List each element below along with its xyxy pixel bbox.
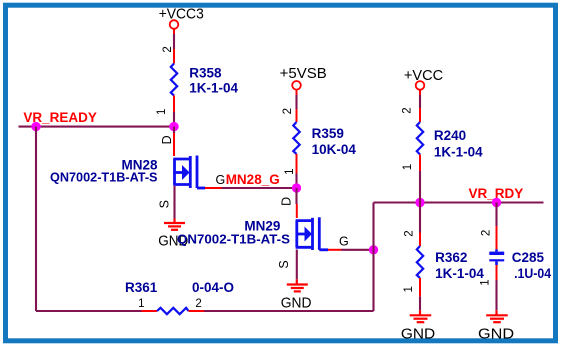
ground symbol below C285 — [486, 310, 508, 322]
wire +VCC to R240 — [419, 95, 421, 108]
svg-text:.1U-04: .1U-04 — [514, 266, 551, 281]
MN28 drain pin lead — [173, 133, 175, 156]
power symbol +VCC — [416, 81, 425, 95]
svg-text:G: G — [216, 173, 226, 187]
R362 pin 2 lead — [419, 233, 421, 247]
svg-text:1: 1 — [402, 164, 414, 170]
junction dot node MN28_G — [292, 183, 301, 192]
svg-text:GND: GND — [401, 326, 435, 342]
svg-text:2: 2 — [195, 298, 201, 310]
wire R358 to node — [173, 112, 175, 127]
svg-text:S: S — [158, 200, 172, 208]
svg-text:1K-1-04: 1K-1-04 — [189, 81, 238, 96]
transistor MN29 QN7002-T1B-AT-S — [296, 217, 328, 250]
R362 pin 1 lead — [419, 278, 421, 297]
C285 pin 1 lead — [496, 265, 498, 280]
svg-text:QN7002-T1B-AT-S: QN7002-T1B-AT-S — [50, 170, 158, 185]
R359 pin 2 lead — [296, 109, 298, 122]
svg-text:R362: R362 — [435, 250, 467, 265]
resistor R359 — [293, 122, 299, 154]
wire +VCC3 to R358 — [173, 34, 175, 49]
svg-text:R359: R359 — [312, 126, 344, 141]
ground symbol below MN29 — [287, 279, 308, 291]
R358 pin 1 lead — [173, 96, 175, 113]
svg-text:R240: R240 — [434, 128, 466, 143]
junction dot MN29 gate — [369, 245, 378, 254]
svg-text:2: 2 — [404, 230, 416, 236]
MN28 source lead — [173, 186, 175, 219]
R240 pin 2 lead — [419, 108, 421, 122]
wire C285 to ground — [495, 280, 497, 310]
wire VR_RDY to R362 — [419, 203, 421, 233]
wire bottom left — [36, 310, 142, 312]
transistor MN28 QN7002-T1B-AT-S — [173, 156, 205, 189]
svg-text:1K-1-04: 1K-1-04 — [435, 266, 484, 281]
wire node to MN28 drain — [173, 127, 175, 133]
capacitor C285 — [489, 249, 504, 265]
wire +5VSB to R359 — [295, 95, 297, 109]
R359 pin 1 lead — [296, 154, 298, 174]
power symbol +VCC3 — [170, 20, 179, 34]
svg-text:R361: R361 — [125, 280, 158, 295]
svg-text:0-04-O: 0-04-O — [192, 280, 234, 295]
wire MN28 gate to node — [222, 187, 297, 189]
svg-text:10K-04: 10K-04 — [312, 142, 357, 157]
wire VR_READY horizontal — [19, 126, 175, 128]
svg-text:D: D — [279, 197, 293, 206]
svg-text:1: 1 — [138, 298, 144, 310]
wire VR_RDY to C285 — [495, 203, 497, 227]
C285 pin 2 lead — [496, 226, 498, 249]
R240 pin 1 lead — [419, 155, 421, 172]
svg-text:QN7002-T1B-AT-S: QN7002-T1B-AT-S — [177, 232, 290, 247]
MN28 gate pin lead — [205, 187, 222, 189]
svg-text:1: 1 — [480, 279, 492, 285]
resistor R362 — [417, 246, 423, 278]
junction dot at C285 top — [492, 198, 501, 207]
svg-text:2: 2 — [162, 46, 174, 52]
svg-text:1: 1 — [156, 109, 168, 115]
svg-text:2: 2 — [402, 107, 414, 113]
svg-text:GND: GND — [281, 296, 312, 312]
MN29 source lead — [296, 250, 298, 280]
svg-text:1: 1 — [284, 168, 296, 174]
junction dot at R358 bottom — [169, 122, 178, 131]
R358 pin 2 lead — [173, 49, 175, 64]
junction dot at R240 bottom — [415, 198, 424, 207]
svg-text:GND: GND — [478, 326, 514, 342]
junction dot on VR_READY — [31, 122, 40, 131]
wire bottom right — [204, 310, 374, 312]
ground symbol below R362 — [410, 310, 432, 322]
R361 pin 1 lead — [142, 310, 158, 312]
wire R362 to ground — [419, 297, 421, 311]
wire MN29 gate to vertical — [341, 249, 374, 251]
wire VR_RDY horizontal — [374, 201, 544, 203]
svg-text:+5VSB: +5VSB — [280, 66, 327, 82]
svg-text:MN28_G: MN28_G — [226, 172, 280, 187]
svg-text:2: 2 — [282, 108, 294, 114]
MN29 gate pin lead — [328, 249, 341, 251]
svg-text:1: 1 — [403, 286, 415, 292]
svg-text:R358: R358 — [189, 66, 222, 81]
resistor R358 — [171, 64, 177, 96]
svg-text:D: D — [160, 135, 174, 144]
svg-text:1K-1-04: 1K-1-04 — [434, 144, 483, 159]
svg-text:S: S — [277, 260, 291, 268]
svg-text:C285: C285 — [512, 250, 545, 265]
MN29 drain pin lead — [296, 204, 298, 218]
resistor R361 body — [157, 308, 189, 314]
resistor R240 — [417, 122, 423, 155]
R361 pin 2 lead — [189, 310, 205, 312]
wire node to MN29 drain — [295, 188, 297, 204]
power symbol +5VSB — [292, 81, 301, 95]
wire R359 to node MN28_G — [295, 174, 297, 189]
wire left vertical — [35, 127, 37, 311]
wire R240 to VR_RDY — [419, 171, 421, 203]
wire right vertical — [372, 203, 374, 312]
svg-text:G: G — [339, 235, 349, 249]
svg-text:2: 2 — [480, 230, 492, 236]
svg-text:+VCC3: +VCC3 — [159, 6, 204, 22]
ground symbol below MN28 — [164, 219, 185, 230]
